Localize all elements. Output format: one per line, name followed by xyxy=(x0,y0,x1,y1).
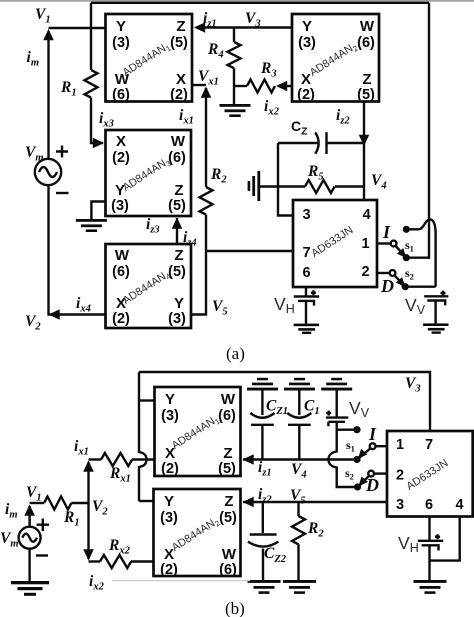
current arrow i_x3 xyxy=(93,138,104,149)
multiplier B3 AD633JN box xyxy=(387,431,473,517)
wire i_m (b) vertical xyxy=(28,506,30,527)
wire Vm bottom to V2 corner xyxy=(49,185,106,314)
wire top frame right drop to s1 contact xyxy=(407,3,429,258)
svg-text:I: I xyxy=(382,222,391,242)
svg-text:(a): (a) xyxy=(226,344,245,363)
svg-text:(6): (6) xyxy=(218,408,236,424)
battery VV top plate xyxy=(424,295,448,297)
wire Rx1 to B1 pin X xyxy=(132,458,154,460)
wire U4 pin Y to ground xyxy=(91,202,105,220)
wire V1 node horizontal to U1 pin Y xyxy=(49,27,106,29)
s2 (b) throw contact dot xyxy=(354,483,361,490)
switch s2 throw contact dot xyxy=(402,283,409,290)
multiplier U3 AD633JN box xyxy=(293,200,377,287)
capacitor CZ straight plate xyxy=(325,132,327,154)
wire i_m vertical xyxy=(47,31,49,159)
svg-text:X: X xyxy=(301,71,311,88)
wire R4 bottom to ground xyxy=(233,68,235,104)
wire into B2 pin Y xyxy=(139,500,153,502)
svg-text:Y: Y xyxy=(116,18,126,35)
battery VH plus mark xyxy=(311,290,316,295)
battery VH bottom plate xyxy=(298,301,314,306)
battery VH (b) bottom plate xyxy=(422,545,439,550)
wire R2 bottom to V5 corner into U5 pin Y xyxy=(192,215,206,315)
source Vm (b) circle xyxy=(19,527,41,549)
capacitor C1 straight plate xyxy=(288,424,311,426)
switch s2 pole circle xyxy=(390,270,396,276)
op-amp U4 AD844AN3 box xyxy=(106,130,192,216)
inverted ground above VV battery (b) xyxy=(321,378,352,391)
capacitor CZ2 curved plate xyxy=(248,542,279,547)
wire U3 pin 2 to switch s2 pole xyxy=(377,272,390,274)
wire left frame drop to B1 pin Y with hop over Rx1 wire xyxy=(139,372,147,501)
scan artifact faint line xyxy=(112,580,250,581)
svg-text:(5): (5) xyxy=(218,461,236,477)
ground below R2 (b) xyxy=(283,580,316,594)
op-amp U2 AD844AN2 box xyxy=(292,14,379,102)
resistor R2 (b) xyxy=(292,516,305,544)
resistor R5 xyxy=(305,180,335,193)
svg-text:(3): (3) xyxy=(298,35,316,51)
switch s2 arm arrowhead xyxy=(396,277,409,290)
current arrow i_m xyxy=(43,29,54,40)
svg-text:W: W xyxy=(115,247,130,264)
svg-text:(5): (5) xyxy=(168,198,186,214)
wire R3 to U2 pin X xyxy=(278,85,292,87)
svg-text:6: 6 xyxy=(425,497,433,513)
ground below Vm (b) xyxy=(11,581,49,596)
svg-text:Z: Z xyxy=(223,445,232,462)
svg-text:(2): (2) xyxy=(160,562,178,578)
svg-text:(6): (6) xyxy=(219,562,237,578)
battery VV plus mark xyxy=(441,291,446,296)
op-amp U5 AD844AN4 box xyxy=(106,244,192,328)
switch s1 (b) arm arrowhead xyxy=(355,449,368,462)
current arrow i_z3 xyxy=(172,218,183,229)
svg-text:Z: Z xyxy=(224,493,233,510)
wire CZ2 bottom stem to ground xyxy=(262,549,264,581)
resistor R3 xyxy=(247,80,275,93)
capacitor CZ1 straight plate xyxy=(251,424,274,426)
svg-text:W: W xyxy=(221,391,236,408)
wire VH battery to ground xyxy=(305,301,307,324)
wire B3 pin 4 route to VH node xyxy=(430,517,460,561)
svg-text:2: 2 xyxy=(396,468,404,484)
current arrow i_z2 (b) xyxy=(243,497,254,508)
source Vm (b) minus sign xyxy=(36,554,48,556)
svg-text:(5): (5) xyxy=(357,87,375,103)
wire R1 to U4 pin X xyxy=(91,98,103,143)
wire s1 (b) pole to B3 pin 1 xyxy=(376,445,388,447)
wire V5 from B2 pin Z to B3 pin 3 xyxy=(243,501,387,503)
wire CZ right lead xyxy=(327,142,365,144)
battery VV (b) bottom plate xyxy=(328,422,345,426)
wire CZ node down to U3 pin 3 xyxy=(278,143,293,216)
wire top frame of (b) with V3 xyxy=(139,372,430,431)
svg-text:1: 1 xyxy=(396,437,404,453)
wire V3 from U1 pin Z to U2 pin Y xyxy=(196,26,292,28)
current arrow i_x2 xyxy=(276,81,287,92)
op-amp B1 AD844AN1 box xyxy=(155,387,241,476)
svg-text:3: 3 xyxy=(303,207,311,223)
svg-text:(2): (2) xyxy=(112,150,130,166)
svg-text:7: 7 xyxy=(425,437,433,453)
op-amp U1 AD844AN1 box xyxy=(106,14,193,102)
ground below U4 pin Y xyxy=(76,219,107,232)
switch s1 throw contact dot xyxy=(403,254,410,261)
switch s1 upper contact dot xyxy=(403,226,410,233)
wire U3 pin 6 to VH battery xyxy=(305,287,307,297)
op-amp B2 AD844AN2 box xyxy=(154,489,241,576)
resistor R1 (b) xyxy=(44,497,71,510)
voltage arrow Vx1 up xyxy=(201,87,212,98)
svg-text:(b): (b) xyxy=(225,599,245,617)
resistor R1 xyxy=(85,70,98,98)
wire Vm (b) to R1 xyxy=(30,502,44,504)
wire C1 bottom stem to V4 wire xyxy=(298,426,300,460)
wire i_z3 between U4 pin Z and U5 pin Z xyxy=(176,218,178,244)
svg-text:4: 4 xyxy=(363,207,371,223)
capacitor C1 curved plate xyxy=(287,413,311,418)
svg-text:Y: Y xyxy=(164,493,174,510)
wire Rx2 to B2 pin X xyxy=(131,560,153,562)
ground below R4 xyxy=(220,104,251,117)
resistor R4 xyxy=(228,42,241,68)
source Vm circle xyxy=(35,159,61,185)
source Vm plus sign xyxy=(56,146,68,158)
node V2 (b) vertical with two arrows xyxy=(87,462,89,559)
svg-text:Z: Z xyxy=(174,247,183,264)
s1 (b) throw contact dot on V4 wire xyxy=(353,456,360,463)
battery VV (b) plus mark xyxy=(326,411,331,416)
current arrow i_z2 xyxy=(359,135,370,146)
svg-text:(2): (2) xyxy=(161,461,179,477)
svg-text:Z: Z xyxy=(176,18,185,35)
ground below VV battery xyxy=(423,323,448,333)
svg-text:2: 2 xyxy=(361,264,369,280)
svg-text:(6): (6) xyxy=(112,264,130,280)
switch s1 arm xyxy=(396,246,406,257)
svg-text:(6): (6) xyxy=(357,35,375,51)
wire CZ1 bottom stem to V4 wire xyxy=(261,426,263,460)
wire C1 top stem xyxy=(298,391,300,416)
svg-text:(3): (3) xyxy=(160,510,178,526)
svg-text:(3): (3) xyxy=(168,311,186,327)
capacitor CZ2 straight plate xyxy=(250,533,277,535)
wire R2 (b) top stem xyxy=(297,502,299,516)
wire V3 to R4 xyxy=(233,28,235,43)
wire i_z2 from U2 pin Z down to U3 pin 4 xyxy=(363,102,365,201)
wire V2 to Rx1 xyxy=(89,458,102,460)
scan artifact top gray band xyxy=(0,0,474,2)
svg-text:(2): (2) xyxy=(297,87,315,103)
wire Vm (b) bottom to ground xyxy=(28,549,30,581)
source Vm (b) sine xyxy=(22,534,37,542)
ground below VH battery xyxy=(294,324,319,334)
wire CZ1 top stem xyxy=(261,391,263,416)
svg-text:1: 1 xyxy=(361,236,369,252)
switch s1 arm arrowhead xyxy=(397,248,410,261)
wire Vx1 vertical upper segment to R2 xyxy=(205,88,207,187)
switch s1 pole circle xyxy=(391,241,397,247)
svg-text:W: W xyxy=(171,133,186,150)
wire B3 pin 6 to VH battery xyxy=(428,517,430,541)
switch s1 (b) arm xyxy=(359,448,371,458)
wire VV battery to ground xyxy=(434,301,436,324)
switch s2 (b) arm arrowhead xyxy=(355,476,368,489)
wire U1 pin X to Vx1 line xyxy=(192,84,206,86)
svg-text:X: X xyxy=(176,71,186,88)
svg-text:7: 7 xyxy=(303,245,311,261)
ground below VH (b) xyxy=(414,580,447,594)
svg-text:W: W xyxy=(360,18,375,35)
wire VV (b) down with hop over V4 wire to s2 contact xyxy=(329,430,355,487)
current arrow i_x4 xyxy=(49,309,60,320)
wire CZ2 top stem xyxy=(262,502,264,533)
wire node to U3 pin 7 xyxy=(206,250,293,252)
svg-text:X: X xyxy=(116,133,126,150)
svg-text:Z: Z xyxy=(174,182,183,199)
svg-text:W: W xyxy=(222,546,237,563)
switch s2 (b) arm xyxy=(360,476,370,486)
svg-text:(5): (5) xyxy=(219,510,237,526)
svg-text:(3): (3) xyxy=(111,198,129,214)
wire V4 from B1 pin Z to s1 throw dot xyxy=(243,458,357,460)
inverted ground above CZ1 xyxy=(247,378,278,391)
battery VH top plate xyxy=(294,295,319,297)
side ground at R5 xyxy=(248,171,261,201)
capacitor CZ curved plate xyxy=(315,132,318,153)
resistor R2 xyxy=(200,187,213,215)
svg-text:(6): (6) xyxy=(112,87,130,103)
wire into B1 pin Y xyxy=(139,399,154,401)
wire top frame horizontal V1 to s1 xyxy=(91,2,429,4)
wire R2 (b) bottom stem to ground xyxy=(297,544,299,580)
wire R5 to i_z2 line xyxy=(335,185,364,187)
resistor Rx2 xyxy=(100,555,131,568)
source Vm minus sign xyxy=(56,192,69,194)
source Vm (b) plus sign xyxy=(37,519,50,532)
switch s2 arm xyxy=(395,275,405,286)
current arrow i_z1 (b) xyxy=(243,454,254,465)
wire CZ left lead xyxy=(278,142,319,144)
current arrow i_m (b) xyxy=(24,505,35,516)
s1 (b) fixed contact dot from battery xyxy=(353,426,360,433)
wire VV (b) bottom to s1 contact dot1 xyxy=(337,422,355,430)
svg-text:Y: Y xyxy=(302,18,312,35)
wire s1 upper contact hop over frame to VV battery xyxy=(406,219,435,286)
battery VH (b) plus mark xyxy=(435,534,440,539)
ground below CZ2 xyxy=(248,580,281,594)
battery VV bottom plate xyxy=(427,301,445,306)
V2 (b) arrow down xyxy=(83,549,94,560)
wire s2 contact to VV battery xyxy=(405,286,435,288)
wire U3 pin 1 to switch s1 pole xyxy=(377,242,391,244)
svg-text:Y: Y xyxy=(174,295,184,312)
wire side ground to R5 xyxy=(259,185,305,187)
svg-text:3: 3 xyxy=(396,497,404,513)
svg-text:(3): (3) xyxy=(112,35,130,51)
capacitor CZ1 curved plate xyxy=(250,413,274,418)
svg-text:Z: Z xyxy=(362,71,371,88)
wire VH (b) to ground xyxy=(428,545,430,580)
inverted ground above C1 xyxy=(284,378,315,391)
wire R4 node to R3 xyxy=(234,85,247,87)
wire V2 to Rx2 xyxy=(89,560,101,562)
svg-text:4: 4 xyxy=(455,497,463,513)
wire s2 (b) pole to B3 pin 2 xyxy=(374,472,387,474)
wire R1 (b) to V2 node xyxy=(71,502,88,504)
source Vm sine xyxy=(39,167,57,177)
switch s1 (b) pole circle xyxy=(370,443,376,449)
svg-text:(2): (2) xyxy=(170,87,188,103)
svg-text:(2): (2) xyxy=(112,311,130,327)
switch s2 (b) pole circle xyxy=(368,471,374,477)
V2 (b) arrow up xyxy=(83,461,94,472)
svg-text:6: 6 xyxy=(303,265,311,281)
svg-text:I: I xyxy=(368,424,377,444)
battery VV (b) top plate xyxy=(326,416,348,418)
wire top frame left drop to R1 xyxy=(90,3,92,70)
svg-text:D: D xyxy=(380,276,394,296)
svg-text:(5): (5) xyxy=(170,35,188,51)
current arrow i_z1 xyxy=(194,22,205,33)
svg-text:Y: Y xyxy=(165,391,175,408)
resistor Rx1 xyxy=(101,453,132,466)
svg-text:(3): (3) xyxy=(161,408,179,424)
wire VV (b) top stem xyxy=(336,391,338,418)
battery VH (b) top plate xyxy=(418,540,443,542)
